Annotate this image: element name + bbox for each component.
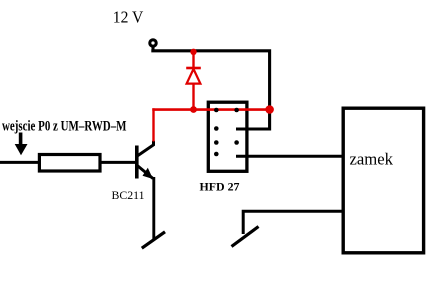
junction dot 12V/diode cathode [190, 49, 196, 55]
terminal 12V [150, 40, 156, 46]
svg-text:12 V: 12 V [113, 7, 144, 26]
wire emitter down [152, 177, 155, 239]
diode D1 cathode bar [186, 67, 201, 70]
wire relay contact to zamek [236, 155, 343, 158]
wire zamek lower with drop [243, 211, 343, 234]
wire input left [0, 161, 39, 164]
wire terminal stub [152, 46, 155, 51]
zamek box [343, 108, 423, 253]
diode D1: cathode lead [192, 52, 194, 68]
ground contact slash left [142, 232, 165, 248]
diode D1 triangle [187, 69, 201, 84]
transistor Q1 emitter diagonal [137, 166, 153, 179]
transistor Q1 base bar [135, 146, 139, 179]
ground contact slash right [232, 227, 259, 247]
red wire to collector [152, 108, 154, 141]
svg-text:zamek: zamek [350, 149, 394, 168]
svg-text:wejscie P0 z UM–RWD–M: wejscie P0 z UM–RWD–M [2, 119, 127, 135]
red bus wire [152, 108, 269, 111]
relay pin dots [214, 108, 219, 113]
transistor Q1 collector diagonal [137, 141, 153, 156]
relay K1 body HFD27 [208, 102, 247, 171]
junction dot right red [265, 105, 274, 114]
diode D1 anode lead [192, 84, 194, 110]
input arrow [19, 133, 23, 145]
wire resistor to base [100, 161, 136, 164]
svg-text:BC211: BC211 [112, 188, 145, 202]
junction dot diode anode [190, 106, 197, 113]
svg-text:HFD 27: HFD 27 [200, 182, 240, 194]
resistor R1 [39, 155, 100, 172]
transistor Q1 emitter arrowhead [143, 168, 154, 179]
wire 12V: top run, right vertical, into relay coil pin [151, 51, 269, 129]
